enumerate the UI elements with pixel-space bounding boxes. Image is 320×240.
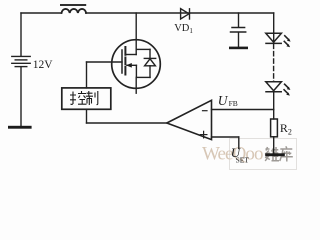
inductor L1 (62, 9, 87, 13)
wire gate lead (87, 61, 123, 63)
ground under R2 (265, 153, 285, 156)
wire top rail right segment (86, 12, 274, 14)
capacitor C1 (238, 13, 240, 27)
wire dashed LED string (273, 44, 275, 81)
svg-text:SET: SET (236, 156, 250, 165)
op-amp plus sign (200, 131, 207, 138)
LED VL1 (266, 33, 282, 43)
transistor V1 body arrow (127, 64, 136, 66)
wire inverting input U_FB (212, 109, 274, 111)
wire top rail left segment (21, 12, 62, 14)
watermark 维 (265, 147, 279, 161)
transistor V1 gate bar (121, 50, 123, 73)
LED VL2 emission arrows (284, 84, 290, 95)
battery negative terminal bar (8, 126, 32, 129)
wire right rail top (273, 13, 275, 43)
transistor V1 source horizontal (136, 76, 150, 78)
label 制 (86, 91, 98, 105)
wire LED2 to R2 (273, 92, 275, 119)
transistor V1 link to body diode (136, 48, 150, 50)
svg-text:U: U (218, 93, 229, 108)
label 控 (70, 91, 87, 104)
wire R2 to ground (273, 137, 275, 154)
watermark box (230, 139, 297, 170)
wire MOSFET drain stem (135, 13, 137, 55)
wire control box to opamp output (86, 109, 88, 123)
diode VD1 (181, 9, 190, 19)
svg-text:12V: 12V (33, 59, 54, 71)
LED VL2 (266, 82, 282, 92)
LED VL1 emission arrows (284, 36, 290, 47)
wire left rail upper (20, 13, 22, 56)
wire non-inverting input (212, 136, 239, 138)
wire MOSFET source stem (135, 77, 137, 93)
op-amp minus sign (203, 110, 208, 112)
transistor V1 body diode (144, 49, 155, 77)
wire left rail lower (20, 67, 22, 126)
transistor V1 drain link (125, 54, 136, 56)
wire to U_SET (238, 137, 240, 149)
wire gate to control box (86, 62, 88, 88)
resistor R2 (271, 119, 278, 137)
transistor V1 MOSFET body circle (112, 40, 161, 89)
transistor V1 body vertical (135, 65, 137, 77)
ground under capacitor (229, 47, 248, 50)
op-amp U1 (167, 100, 212, 139)
watermark 库 (280, 146, 293, 161)
transistor V1 channel segments (124, 47, 126, 75)
svg-text:FB: FB (229, 99, 238, 108)
battery B1 12V (12, 56, 30, 66)
control box (62, 88, 111, 109)
